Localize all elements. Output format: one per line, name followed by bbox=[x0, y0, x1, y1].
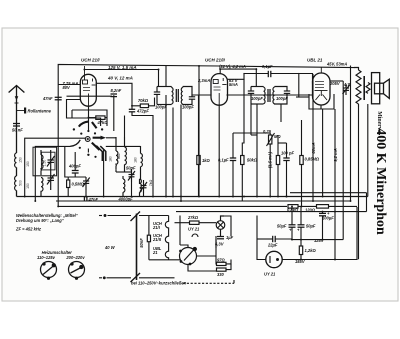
IF transformer 1 primary bbox=[154, 87, 173, 105]
svg-text:40 W: 40 W bbox=[104, 245, 116, 250]
wire rail drop x199 2.3mA bbox=[198, 66, 200, 197]
trimmer capacitor T5 bbox=[140, 182, 147, 193]
svg-text:Rollantenne: Rollantenne bbox=[28, 109, 52, 114]
svg-text:47kΩ: 47kΩ bbox=[97, 120, 109, 125]
wire hop bbox=[192, 234, 198, 237]
capacitor 50uF a bbox=[289, 225, 296, 227]
wire rail drop x166 bbox=[165, 66, 167, 87]
svg-text:(22 V), 4,2 mA: (22 V), 4,2 mA bbox=[219, 64, 246, 69]
wire switch arrow to L5 bbox=[106, 137, 116, 139]
trimmer capacitor T2 bbox=[47, 172, 55, 190]
svg-text:Drehung um 90°: „Lang: Drehung um 90°: „Lang“ bbox=[16, 218, 65, 223]
resistor 1.5mA screen bbox=[276, 156, 279, 165]
capacitor lamp bbox=[217, 237, 224, 239]
svg-text:45V, 53mA: 45V, 53mA bbox=[326, 62, 347, 67]
rotary wave switch bbox=[70, 118, 106, 162]
trimmer capacitor T1 bbox=[47, 150, 55, 172]
svg-text:2,3mA: 2,3mA bbox=[197, 78, 210, 83]
wire grid to tube I bbox=[58, 84, 80, 86]
wire grid line IF1 bbox=[192, 94, 211, 96]
svg-text:150: 150 bbox=[26, 183, 30, 189]
wire top rail bbox=[58, 65, 354, 207]
wire 125V anode line bbox=[85, 69, 159, 71]
svg-text:0,1µF: 0,1µF bbox=[218, 158, 229, 163]
heater switch A bbox=[41, 262, 57, 280]
svg-text:0,85MΩ: 0,85MΩ bbox=[305, 157, 320, 162]
trimmer capacitor T4 bbox=[128, 169, 135, 182]
svg-text:UY 21: UY 21 bbox=[264, 272, 276, 277]
svg-text:4,7: 4,7 bbox=[343, 82, 350, 87]
trimmer capacitor 4.7nF tone bbox=[343, 84, 351, 95]
wire UBL anode to transformer bbox=[330, 80, 343, 82]
wire speaker down bbox=[367, 104, 369, 197]
svg-text:7kΩ: 7kΩ bbox=[149, 179, 153, 186]
svg-text:205V: 205V bbox=[329, 81, 341, 86]
resistor 0.85MOhm bbox=[300, 156, 303, 165]
resistor 0.5MOhm bbox=[67, 180, 70, 188]
svg-text:1kΩ: 1kΩ bbox=[202, 158, 211, 163]
wire screen RC line bbox=[132, 98, 155, 106]
svg-text:8,2nF: 8,2nF bbox=[111, 88, 122, 93]
svg-text:0,5MΩ: 0,5MΩ bbox=[72, 182, 85, 187]
svg-text:80V: 80V bbox=[63, 85, 72, 90]
coil L4 bbox=[41, 178, 43, 197]
resistor 27kOhm bbox=[190, 221, 200, 224]
capacitor 100pF bbox=[283, 158, 289, 161]
shield box MW coil bbox=[33, 147, 57, 176]
wire selector connections bbox=[180, 245, 216, 271]
svg-text:50 nF: 50 nF bbox=[12, 128, 23, 133]
svg-text:100pF: 100pF bbox=[182, 105, 194, 110]
svg-text:180: 180 bbox=[109, 156, 113, 162]
capacitor 50uF b bbox=[298, 225, 305, 227]
svg-text:400pF: 400pF bbox=[68, 164, 81, 169]
svg-text:100 pF: 100 pF bbox=[281, 151, 294, 156]
svg-text:125 V, 1,5 mA: 125 V, 1,5 mA bbox=[108, 65, 137, 70]
svg-text:120Ω: 120Ω bbox=[305, 208, 316, 213]
svg-text:UCH 21/I: UCH 21/I bbox=[81, 58, 100, 63]
coil L3 bbox=[41, 150, 43, 175]
wire tube II topcap bbox=[219, 69, 221, 74]
coil L5 bbox=[116, 137, 118, 172]
svg-text:70kΩ: 70kΩ bbox=[138, 98, 149, 103]
trimmer capacitor T3 bbox=[83, 177, 90, 190]
capacitor 47nF AVC bbox=[84, 197, 87, 202]
svg-text:110–125v: 110–125v bbox=[37, 255, 56, 260]
svg-text:50µF: 50µF bbox=[277, 224, 287, 229]
svg-text:27kΩ: 27kΩ bbox=[187, 215, 199, 220]
wire osc feedback box bbox=[67, 100, 108, 127]
svg-text:bei 110–250V~kurzschließen: bei 110–250V~kurzschließen bbox=[131, 281, 187, 286]
capacitor 8.2nF bbox=[111, 94, 118, 131]
coil L7 bbox=[141, 146, 143, 180]
svg-text:180: 180 bbox=[133, 157, 137, 163]
wire padder junction bbox=[116, 172, 144, 197]
wire UBL cathode box bbox=[296, 94, 334, 109]
svg-text:22µF: 22µF bbox=[267, 243, 278, 248]
coil L9 bbox=[140, 179, 142, 197]
svg-text:150: 150 bbox=[26, 161, 30, 167]
svg-text:200–220v: 200–220v bbox=[65, 255, 85, 260]
resistor 970 Ohm bbox=[217, 262, 227, 265]
IF transformer 2 primary bbox=[248, 87, 265, 105]
svg-text:UCH 21/II: UCH 21/II bbox=[205, 58, 226, 63]
scale lamp bbox=[216, 216, 225, 236]
svg-text:881: 881 bbox=[117, 153, 121, 159]
svg-text:UY 21: UY 21 bbox=[188, 227, 200, 232]
svg-text:40 V, 12 mA: 40 V, 12 mA bbox=[107, 75, 133, 80]
resistor 330 Ohm bbox=[217, 268, 227, 271]
coil L6 bbox=[125, 137, 127, 172]
bus HT line bbox=[58, 205, 287, 207]
svg-text:21/II: 21/II bbox=[152, 237, 162, 242]
voltage selector bbox=[180, 247, 197, 264]
svg-text:400 K Minerphon: 400 K Minerphon bbox=[373, 128, 388, 235]
capacitor 0.1uF coupling top bbox=[268, 71, 271, 77]
IF transformer 2 secondary bbox=[273, 87, 290, 105]
svg-text:0,1µF: 0,1µF bbox=[262, 64, 273, 69]
svg-text:1,2kΩ: 1,2kΩ bbox=[305, 248, 317, 253]
wire 27k line bbox=[175, 216, 217, 246]
coil L8 bbox=[123, 176, 125, 197]
wire IF2 feed bbox=[220, 69, 256, 86]
svg-text:472pF: 472pF bbox=[136, 109, 149, 114]
wire right angle drops bbox=[357, 193, 367, 259]
resistor 1.2kOhm bbox=[299, 246, 302, 255]
wire UY heater feed bbox=[256, 216, 258, 240]
switch contact dots bbox=[73, 128, 104, 158]
bus ground line bbox=[17, 196, 368, 198]
svg-text:1:50: 1:50 bbox=[43, 160, 47, 167]
wire tube II down bbox=[218, 105, 220, 196]
wire osc grid vertical bbox=[124, 116, 126, 138]
coil L1 antenna bbox=[15, 153, 17, 167]
svg-text:UBL 21: UBL 21 bbox=[307, 58, 323, 63]
mains switch bar bbox=[136, 214, 138, 281]
mains line 1 bbox=[99, 212, 140, 222]
svg-text:100µF: 100µF bbox=[322, 216, 334, 221]
IF transformer 2 core bbox=[268, 89, 270, 102]
svg-text:50kΩ: 50kΩ bbox=[247, 158, 258, 163]
svg-text:ZF = 452 kHz: ZF = 452 kHz bbox=[15, 226, 42, 231]
capacitor 22uF bbox=[273, 236, 276, 242]
wire 1.2k down bbox=[300, 255, 302, 260]
wire transformer taps down bbox=[343, 81, 358, 259]
svg-text:50pF: 50pF bbox=[126, 166, 136, 171]
tube UBL21 bbox=[313, 73, 331, 105]
capacitor 47nF bbox=[55, 97, 62, 100]
wire selector resistor net bbox=[216, 216, 231, 270]
IF transformer 1 secondary bbox=[181, 87, 195, 105]
resistor 1kOhm bbox=[197, 156, 200, 165]
capacitor 0.1uF AVC bbox=[230, 158, 236, 161]
tube UY21 rectifier bbox=[266, 251, 282, 267]
svg-text:47nF: 47nF bbox=[42, 96, 53, 101]
wire caps verticals bbox=[292, 207, 301, 246]
tube UCH21/I bbox=[80, 74, 96, 106]
svg-text:9,2 mA: 9,2 mA bbox=[333, 148, 338, 161]
tube UCH21/II bbox=[211, 74, 228, 106]
wire switch to bus bbox=[103, 150, 105, 197]
dashed link line bbox=[183, 282, 234, 284]
wire UY21 output bbox=[282, 259, 357, 261]
speaker voice coil bbox=[366, 83, 370, 94]
wire 472pF down bbox=[131, 106, 133, 110]
wire switch feeds left bbox=[25, 138, 85, 201]
svg-text:100pF: 100pF bbox=[276, 96, 288, 101]
resistor 120 Ohm bbox=[317, 205, 329, 209]
output transformer primary bbox=[354, 68, 361, 108]
svg-text:500: 500 bbox=[19, 180, 23, 186]
speaker bbox=[372, 73, 390, 104]
svg-text:50µF: 50µF bbox=[306, 224, 316, 229]
svg-text:125V: 125V bbox=[314, 238, 325, 243]
antenna arrowhead bbox=[15, 96, 19, 100]
coil L2 antenna bbox=[15, 176, 17, 190]
resistor 47kOhm cathode bbox=[96, 116, 105, 120]
resistor 70kOhm bbox=[140, 104, 148, 108]
antenna plug bbox=[17, 110, 25, 112]
mains line 2 bbox=[99, 273, 175, 282]
wire switch to L7 bbox=[106, 145, 141, 147]
wire mid verticals bbox=[166, 74, 335, 212]
wire node under 400pF bbox=[68, 176, 86, 178]
capacitor 100uF bbox=[319, 212, 326, 240]
capacitor heater bypass bbox=[147, 235, 150, 242]
svg-text:330: 330 bbox=[217, 272, 225, 277]
capacitor 472pF bbox=[129, 109, 135, 112]
wire 40V screen line bbox=[96, 83, 132, 106]
svg-text:97Ω: 97Ω bbox=[217, 258, 226, 263]
heater switch B bbox=[69, 262, 85, 280]
bus heater line bbox=[176, 211, 367, 213]
wire right lower drops bbox=[290, 193, 367, 260]
svg-text:5mA: 5mA bbox=[229, 82, 238, 87]
resistor 50kOhm bbox=[241, 156, 244, 165]
capacitor 50nF antenna bbox=[13, 124, 20, 127]
wire rail right drop bbox=[350, 66, 352, 202]
bus AVC line bbox=[56, 200, 351, 202]
wire grid2 bbox=[67, 95, 113, 97]
wire 22uF line bbox=[257, 239, 292, 260]
capacitor 400pF tuning bbox=[72, 152, 79, 177]
antenna bbox=[9, 86, 25, 197]
svg-text:50nF: 50nF bbox=[139, 238, 144, 248]
svg-text:150: 150 bbox=[19, 157, 23, 163]
output transformer core bbox=[363, 76, 365, 100]
svg-text:1µF: 1µF bbox=[226, 235, 234, 240]
wire branch to 0.5M node bbox=[65, 146, 68, 177]
wire coupling line bbox=[244, 73, 268, 75]
svg-text:100pF: 100pF bbox=[251, 96, 263, 101]
resistor 0.8kOhm bbox=[288, 205, 298, 209]
svg-text:0,8kΩ: 0,8kΩ bbox=[287, 208, 299, 213]
wire IF2 taps down bbox=[257, 104, 281, 135]
svg-text:21: 21 bbox=[152, 250, 158, 255]
IF transformer 1 core bbox=[176, 89, 178, 102]
svg-text:21/I: 21/I bbox=[152, 225, 161, 230]
wire grid line IF2 bbox=[227, 94, 312, 96]
volume potentiometer 0.25MOhm bbox=[269, 135, 272, 144]
wire tube I cathode down bbox=[88, 106, 90, 117]
heater chain box bbox=[139, 216, 181, 260]
svg-text:60mA: 60mA bbox=[311, 142, 316, 153]
